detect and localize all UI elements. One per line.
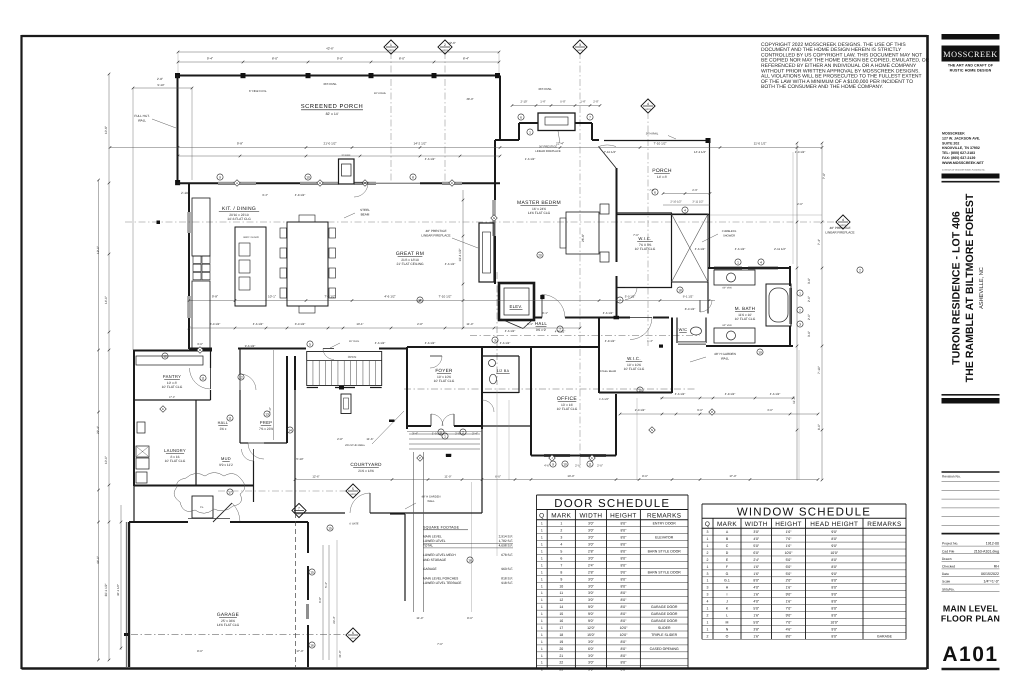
svg-text:5'-4": 5'-4" (324, 582, 328, 588)
svg-text:FAX: (865) 637-2139: FAX: (865) 637-2139 (942, 156, 975, 160)
svg-text:WINDOW SCHEDULE: WINDOW SCHEDULE (737, 507, 871, 519)
svg-text:2'8": 2'8" (588, 570, 595, 574)
svg-text:2: 2 (560, 529, 562, 533)
svg-text:1'6": 1'6" (753, 572, 760, 576)
svg-text:17: 17 (559, 626, 563, 630)
svg-text:127 W. JACKSON AVE.: 127 W. JACKSON AVE. (942, 136, 980, 140)
svg-text:4'-6 1/2": 4'-6 1/2" (445, 262, 456, 266)
svg-text:9'0": 9'0" (786, 613, 793, 617)
svg-text:48X11' ISLAND: 48X11' ISLAND (243, 236, 259, 239)
svg-text:10' FLAT CLG: 10' FLAT CLG (165, 459, 186, 463)
svg-text:3'0": 3'0" (588, 536, 595, 540)
svg-text:10: 10 (306, 175, 310, 179)
svg-text:2: 2 (462, 430, 464, 434)
svg-text:11'-0": 11'-0" (416, 616, 423, 620)
svg-text:1: 1 (799, 291, 801, 295)
svg-text:1: 1 (541, 654, 543, 658)
svg-text:36" PRESTIGE: 36" PRESTIGE (539, 146, 557, 149)
svg-text:9'-8": 9'-8" (212, 295, 218, 299)
svg-text:3'0": 3'0" (588, 584, 595, 588)
svg-text:11: 11 (559, 591, 563, 595)
svg-text:8'-0": 8'-0" (467, 616, 473, 620)
svg-text:2'-0": 2'-0" (597, 464, 603, 468)
svg-text:3'-6": 3'-6" (807, 331, 811, 337)
svg-text:Project No.: Project No. (942, 542, 958, 546)
svg-text:42'-6": 42'-6" (448, 41, 456, 45)
svg-text:WALL: WALL (427, 500, 435, 503)
svg-text:PREP: PREP (260, 420, 273, 425)
svg-text:8'0": 8'0" (831, 537, 838, 541)
svg-text:9'-8": 9'-8" (237, 142, 243, 146)
svg-text:6'0": 6'0" (786, 565, 793, 569)
svg-text:4'6": 4'6" (786, 627, 793, 631)
svg-text:DOOR SCHEDULE: DOOR SCHEDULE (554, 498, 670, 510)
svg-text:BEAM: BEAM (361, 213, 370, 217)
svg-text:14'-2 1/2": 14'-2 1/2" (413, 142, 426, 146)
svg-text:3'-4": 3'-4" (262, 193, 268, 197)
svg-text:WIDTH: WIDTH (745, 521, 768, 528)
svg-text:9'-10": 9'-10" (157, 83, 164, 87)
svg-text:1: 1 (541, 543, 543, 547)
svg-text:8'0": 8'0" (621, 556, 628, 560)
svg-text:7'6 x 23'9: 7'6 x 23'9 (259, 427, 273, 431)
svg-text:13'-0": 13'-0" (567, 474, 574, 478)
svg-text:8'0": 8'0" (831, 600, 838, 604)
svg-text:2'-8": 2'-8" (157, 77, 163, 81)
svg-text:8'0": 8'0" (621, 584, 628, 588)
svg-text:12: 12 (163, 354, 167, 358)
svg-text:N: N (651, 428, 653, 432)
svg-text:1: 1 (541, 668, 543, 672)
svg-text:G: G (493, 216, 495, 220)
svg-text:10: 10 (563, 462, 567, 466)
svg-text:8'-0 1/2": 8'-0 1/2" (685, 307, 696, 311)
svg-text:4'-6 1/2": 4'-6 1/2" (695, 247, 706, 251)
svg-text:3: 3 (707, 593, 709, 597)
svg-text:M. BATH: M. BATH (735, 306, 755, 311)
svg-text:4'-8 1/2": 4'-8 1/2" (725, 392, 736, 396)
svg-text:4'-6 1/2": 4'-6 1/2" (384, 295, 395, 299)
svg-text:1: 1 (541, 661, 543, 665)
svg-text:11'-0": 11'-0" (792, 396, 796, 404)
svg-text:3'0": 3'0" (588, 598, 595, 602)
svg-text:MAIN LEVEL: MAIN LEVEL (423, 535, 442, 539)
svg-text:7'-10 1/2": 7'-10 1/2" (438, 295, 451, 299)
svg-text:15: 15 (559, 612, 563, 616)
svg-text:THE RAMBLE AT BILTMORE FOREST: THE RAMBLE AT BILTMORE FOREST (964, 193, 976, 382)
svg-text:2'8": 2'8" (588, 550, 595, 554)
svg-text:9'0": 9'0" (831, 530, 838, 534)
svg-text:7'0": 7'0" (786, 620, 793, 624)
svg-text:3'0": 3'0" (588, 543, 595, 547)
svg-text:PANTRY: PANTRY (163, 374, 181, 379)
svg-text:2'-0": 2'-0" (575, 464, 581, 468)
svg-text:7'-4": 7'-4" (817, 239, 821, 245)
svg-text:23: 23 (559, 668, 563, 672)
svg-text:3: 3 (707, 586, 709, 590)
svg-text:1912-00: 1912-00 (986, 542, 999, 546)
svg-text:A201: A201 (442, 49, 448, 52)
svg-text:12: 12 (559, 598, 563, 602)
svg-text:82' x 14': 82' x 14' (326, 112, 339, 116)
svg-text:A201: A201 (388, 49, 394, 52)
svg-text:10'0": 10'0" (620, 633, 629, 637)
svg-text:36"H RAIL: 36"H RAIL (646, 133, 659, 136)
svg-text:8'0": 8'0" (831, 606, 838, 610)
svg-text:19'-0": 19'-0" (96, 246, 100, 254)
svg-text:8'0": 8'0" (621, 543, 628, 547)
svg-text:1: 1 (390, 43, 392, 47)
svg-text:9'0": 9'0" (831, 544, 838, 548)
svg-text:2: 2 (799, 308, 801, 312)
svg-text:16: 16 (310, 643, 314, 647)
svg-text:OPEN: OPEN (348, 355, 357, 359)
svg-text:1: 1 (541, 647, 543, 651)
svg-text:9'-1 1/2": 9'-1 1/2" (683, 295, 694, 299)
svg-text:1: 1 (541, 584, 543, 588)
svg-text:SLIDER: SLIDER (658, 626, 671, 630)
svg-text:17'-0": 17'-0" (296, 649, 303, 653)
svg-text:9'0": 9'0" (786, 593, 793, 597)
svg-text:10: 10 (638, 388, 642, 392)
svg-text:KIT. / DINING: KIT. / DINING (222, 206, 256, 212)
svg-text:3'6 x: 3'6 x (220, 427, 227, 431)
svg-text:BARN STYLE DOOR: BARN STYLE DOOR (648, 550, 682, 554)
svg-text:10'0": 10'0" (785, 551, 794, 555)
svg-text:3'0": 3'0" (588, 556, 595, 560)
svg-text:8'0": 8'0" (621, 668, 628, 672)
svg-text:60" VAN: 60" VAN (723, 324, 732, 327)
svg-text:CASED OPENING: CASED OPENING (650, 647, 679, 651)
svg-text:W.I.C.: W.I.C. (638, 236, 651, 241)
svg-text:6: 6 (520, 115, 522, 119)
svg-text:7'-6": 7'-6" (822, 173, 826, 179)
svg-text:4'0": 4'0" (753, 600, 760, 604)
svg-text:1'-6": 1'-6" (580, 100, 586, 104)
svg-text:7: 7 (560, 563, 562, 567)
svg-text:1'6": 1'6" (753, 613, 760, 617)
svg-text:8'0": 8'0" (621, 647, 628, 651)
svg-text:7: 7 (589, 115, 591, 119)
svg-text:9'-4": 9'-4" (207, 57, 213, 61)
svg-text:LINEAR FIREPLACE: LINEAR FIREPLACE (825, 231, 854, 235)
svg-text:10' FLAT CLG: 10' FLAT CLG (624, 367, 645, 371)
svg-text:5: 5 (352, 487, 354, 491)
svg-text:2: 2 (707, 558, 709, 562)
svg-text:10' FLAT CLG: 10' FLAT CLG (557, 407, 578, 411)
svg-text:1: 1 (707, 620, 709, 624)
svg-text:918 S.F.: 918 S.F. (501, 581, 513, 585)
svg-text:3'-0": 3'-0" (197, 342, 203, 346)
svg-text:ELEVATOR: ELEVATOR (655, 536, 674, 540)
svg-text:8'0": 8'0" (621, 654, 628, 658)
svg-text:10' FLAT CLG: 10' FLAT CLG (735, 317, 756, 321)
svg-text:MARK: MARK (717, 521, 737, 528)
svg-text:18: 18 (678, 288, 682, 292)
svg-text:8'0": 8'0" (621, 536, 628, 540)
svg-text:SHOWER: SHOWER (723, 235, 735, 238)
svg-text:9'0": 9'0" (831, 572, 838, 576)
svg-text:8'0": 8'0" (831, 586, 838, 590)
svg-text:8'0": 8'0" (621, 598, 628, 602)
svg-text:8'-1": 8'-1" (542, 311, 548, 315)
svg-text:1'6": 1'6" (786, 544, 793, 548)
svg-text:9'-1": 9'-1" (527, 322, 533, 326)
svg-text:3'0": 3'0" (588, 661, 595, 665)
svg-text:13'-1": 13'-1" (356, 322, 363, 326)
svg-text:10' FLAT CLG: 10' FLAT CLG (162, 385, 183, 389)
svg-text:4'-6 1/2": 4'-6 1/2" (500, 341, 511, 345)
svg-text:4'-6 1/2": 4'-6 1/2" (770, 392, 781, 396)
svg-text:9'-6 1/2": 9'-6 1/2" (245, 344, 256, 348)
svg-text:A DIVISION OF DESIGNER HOMES P: A DIVISION OF DESIGNER HOMES PLANNING IN… (942, 169, 986, 172)
svg-text:678 S.F.: 678 S.F. (501, 553, 513, 557)
svg-text:TEL: (800) 627-2183: TEL: (800) 627-2183 (942, 151, 975, 155)
svg-text:PORCH: PORCH (652, 168, 672, 174)
svg-text:17'-0": 17'-0" (169, 396, 175, 399)
svg-text:REMARKS: REMARKS (647, 512, 681, 519)
svg-text:15'0": 15'0" (587, 633, 596, 637)
svg-text:22: 22 (559, 661, 563, 665)
svg-text:1: 1 (541, 640, 543, 644)
svg-text:Q: Q (539, 512, 544, 519)
svg-text:6'0": 6'0" (588, 647, 595, 651)
svg-text:11'6 x 10': 11'6 x 10' (738, 313, 752, 317)
svg-text:3'0": 3'0" (753, 530, 760, 534)
svg-text:3: 3 (707, 572, 709, 576)
svg-text:3'0": 3'0" (588, 591, 595, 595)
svg-text:1'-6 1/2": 1'-6 1/2" (599, 398, 609, 401)
svg-text:36"H RAIL: 36"H RAIL (323, 82, 337, 86)
svg-text:15: 15 (310, 570, 314, 574)
svg-text:2: 2 (707, 613, 709, 617)
svg-text:13: 13 (265, 412, 269, 416)
svg-text:20'10 x 23'10: 20'10 x 23'10 (229, 213, 249, 217)
svg-text:GARAGE: GARAGE (877, 634, 893, 638)
svg-text:16: 16 (559, 619, 563, 623)
svg-text:14: 14 (559, 605, 563, 609)
svg-text:GARAGE DOOR: GARAGE DOOR (651, 619, 678, 623)
svg-text:WALL: WALL (138, 119, 147, 123)
svg-text:4,698 S.F.: 4,698 S.F. (499, 544, 513, 548)
svg-text:9'0": 9'0" (588, 605, 595, 609)
svg-text:10' x 10'6: 10' x 10'6 (627, 363, 641, 367)
svg-text:5'0": 5'0" (753, 620, 760, 624)
svg-text:48'-0": 48'-0" (466, 97, 473, 101)
svg-text:2'-8": 2'-8" (337, 437, 343, 441)
svg-text:4'-6 1/2": 4'-6 1/2" (375, 341, 386, 345)
svg-text:F: F (726, 565, 728, 569)
svg-text:LOWER LEVEL: LOWER LEVEL (423, 539, 446, 543)
svg-text:D: D (451, 181, 453, 185)
svg-text:COURTYARD: COURTYARD (350, 462, 382, 467)
svg-text:7: 7 (559, 327, 561, 331)
svg-text:7'-10": 7'-10" (817, 366, 821, 374)
svg-text:1'-0 1/2": 1'-0 1/2" (432, 432, 443, 436)
svg-text:3'0": 3'0" (588, 640, 595, 644)
svg-text:8'0": 8'0" (621, 612, 628, 616)
svg-text:Shts/No.: Shts/No. (942, 587, 955, 591)
svg-text:19: 19 (758, 350, 762, 354)
svg-text:14: 14 (288, 428, 292, 432)
svg-text:K: K (591, 456, 593, 460)
svg-text:2X6 STUD WALL: 2X6 STUD WALL (345, 444, 366, 447)
svg-text:9'0": 9'0" (831, 593, 838, 597)
svg-text:10' x 8': 10' x 8' (167, 381, 178, 385)
svg-text:11: 11 (228, 416, 232, 420)
svg-text:4'-6 1/2": 4'-6 1/2" (675, 392, 686, 396)
svg-text:8'0": 8'0" (621, 577, 628, 581)
svg-text:8'0": 8'0" (831, 613, 838, 617)
svg-text:7'-0 1/2": 7'-0 1/2" (324, 295, 335, 299)
svg-text:19: 19 (559, 640, 563, 644)
svg-text:8'0": 8'0" (831, 634, 838, 638)
svg-text:2: 2 (444, 43, 446, 47)
svg-text:2'-10": 2'-10" (181, 191, 189, 195)
svg-text:36'-1 1/2": 36'-1 1/2" (104, 583, 108, 596)
svg-text:3'-4": 3'-4" (412, 432, 418, 436)
svg-text:6: 6 (560, 556, 562, 560)
svg-text:2'-0": 2'-0" (807, 314, 811, 320)
svg-text:8: 8 (412, 175, 414, 179)
svg-text:9'-0": 9'-0" (337, 57, 343, 61)
svg-text:13' x 16': 13' x 16' (561, 403, 573, 407)
svg-text:J: J (726, 600, 728, 604)
svg-text:4'-6 1/2": 4'-6 1/2" (505, 329, 516, 333)
svg-text:WWW.MOSSCREEK.NET: WWW.MOSSCREEK.NET (942, 161, 985, 165)
svg-text:A201: A201 (577, 49, 583, 52)
svg-text:8'0": 8'0" (621, 550, 628, 554)
svg-text:4'-6 1/2": 4'-6 1/2" (603, 311, 614, 315)
svg-text:21'-0 1/2": 21'-0 1/2" (323, 142, 336, 146)
svg-text:9'0": 9'0" (831, 627, 838, 631)
svg-text:1: 1 (541, 536, 543, 540)
svg-text:7'0": 7'0" (786, 606, 793, 610)
svg-text:12'0": 12'0" (587, 626, 596, 630)
svg-text:8'0": 8'0" (621, 605, 628, 609)
svg-text:Checked: Checked (942, 565, 955, 569)
svg-text:1: 1 (541, 626, 543, 630)
svg-text:RH: RH (994, 565, 1000, 569)
svg-text:HALL: HALL (535, 321, 547, 326)
svg-text:G.1: G.1 (724, 579, 730, 583)
svg-text:9'0": 9'0" (621, 570, 628, 574)
svg-text:A101: A101 (942, 643, 998, 666)
svg-text:A201: A201 (350, 637, 356, 640)
svg-text:8'0": 8'0" (621, 640, 628, 644)
svg-text:1'6": 1'6" (753, 565, 760, 569)
svg-text:SUITE 202: SUITE 202 (942, 141, 959, 145)
svg-text:LOWER LEVEL MECH: LOWER LEVEL MECH (423, 553, 456, 557)
svg-text:SQUARE FOOTAGE: SQUARE FOOTAGE (423, 526, 460, 530)
svg-text:8'0": 8'0" (621, 529, 628, 533)
svg-text:44'-0": 44'-0" (96, 556, 100, 564)
svg-text:G: G (726, 572, 729, 576)
svg-text:1: 1 (444, 434, 446, 438)
svg-text:REMARKS: REMARKS (867, 521, 901, 528)
svg-text:21'6 x 18'6: 21'6 x 18'6 (358, 469, 374, 473)
svg-text:Revision No.: Revision No. (942, 475, 961, 479)
svg-text:Date: Date (942, 572, 949, 576)
svg-text:MASTER BEDRM: MASTER BEDRM (517, 200, 561, 206)
svg-text:1: 1 (707, 565, 709, 569)
svg-text:MOSSCREEK: MOSSCREEK (942, 132, 965, 136)
svg-text:2'-0 1/2": 2'-0 1/2" (635, 408, 646, 412)
svg-text:1'6": 1'6" (786, 530, 793, 534)
svg-text:E: E (162, 407, 164, 411)
svg-text:36"H RAIL: 36"H RAIL (374, 92, 387, 95)
svg-text:RUSTIC HOME DESIGN: RUSTIC HOME DESIGN (950, 69, 992, 73)
svg-text:OFFICE: OFFICE (557, 396, 577, 402)
svg-text:21: 21 (559, 654, 563, 658)
svg-text:9'6 x 9': 9'6 x 9' (536, 328, 547, 332)
svg-text:11'-0 1/2": 11'-0 1/2" (754, 142, 767, 146)
svg-text:19'-4 1/2": 19'-4 1/2" (458, 248, 462, 261)
svg-text:4: 4 (707, 600, 709, 604)
svg-text:Scale: Scale (942, 580, 950, 584)
svg-text:31'-6": 31'-6" (338, 650, 342, 657)
svg-text:8'0": 8'0" (831, 565, 838, 569)
svg-text:20: 20 (538, 253, 542, 257)
svg-text:21: 21 (418, 298, 422, 302)
svg-text:M: M (726, 620, 729, 624)
svg-text:3'-0 1/2": 3'-0 1/2" (295, 322, 306, 326)
svg-text:STEEL BEAM: STEEL BEAM (600, 370, 616, 373)
svg-text:2'-6": 2'-6" (692, 188, 698, 192)
svg-text:6: 6 (352, 631, 354, 635)
svg-text:4: 4 (684, 208, 686, 212)
svg-text:MUD: MUD (221, 456, 231, 461)
svg-text:2'-0": 2'-0" (455, 432, 461, 436)
svg-text:WIDTH: WIDTH (579, 512, 602, 519)
svg-text:7'6 X 9'6: 7'6 X 9'6 (639, 243, 652, 247)
svg-text:1: 1 (707, 579, 709, 583)
svg-text:1: 1 (541, 633, 543, 637)
svg-text:W.I.C.: W.I.C. (627, 356, 641, 361)
svg-text:4'-6": 4'-6" (544, 464, 550, 468)
svg-text:2'-8": 2'-8" (417, 322, 423, 326)
svg-text:3'0": 3'0" (588, 529, 595, 533)
svg-text:8'-0": 8'-0" (272, 57, 278, 61)
svg-text:48" PRESTIGE: 48" PRESTIGE (829, 226, 850, 230)
svg-text:8'-0": 8'-0" (197, 649, 203, 653)
svg-text:9'-0": 9'-0" (697, 408, 703, 412)
svg-text:9'0": 9'0" (588, 619, 595, 623)
svg-text:Drawn: Drawn (942, 557, 952, 561)
svg-text:8'0": 8'0" (621, 661, 628, 665)
svg-text:1: 1 (541, 563, 543, 567)
svg-text:17'-0": 17'-0" (729, 474, 736, 478)
svg-text:1'6": 1'6" (786, 600, 793, 604)
svg-text:3'8": 3'8" (753, 627, 760, 631)
svg-text:6: 6 (654, 190, 656, 194)
svg-text:6'0": 6'0" (753, 551, 760, 555)
svg-text:1: 1 (541, 529, 543, 533)
svg-text:1: 1 (529, 130, 531, 134)
svg-text:A201: A201 (645, 108, 651, 111)
svg-text:LOWER LEVEL TERRACE: LOWER LEVEL TERRACE (423, 581, 461, 585)
svg-text:SCREENED PORCH: SCREENED PORCH (301, 103, 363, 110)
svg-text:3'-0 1/2": 3'-0 1/2" (210, 322, 221, 326)
svg-text:2153-A101.dwg: 2153-A101.dwg (974, 549, 999, 553)
svg-text:5'-0": 5'-0" (560, 100, 566, 104)
svg-text:2: 2 (707, 634, 709, 638)
svg-text:10' FLAT CLG: 10' FLAT CLG (434, 379, 455, 383)
svg-text:WALL: WALL (721, 357, 730, 361)
svg-text:818 S.F.: 818 S.F. (501, 576, 513, 580)
svg-text:5'-10": 5'-10" (296, 457, 303, 461)
svg-text:LINEAR FIREPLACE: LINEAR FIREPLACE (421, 234, 450, 238)
